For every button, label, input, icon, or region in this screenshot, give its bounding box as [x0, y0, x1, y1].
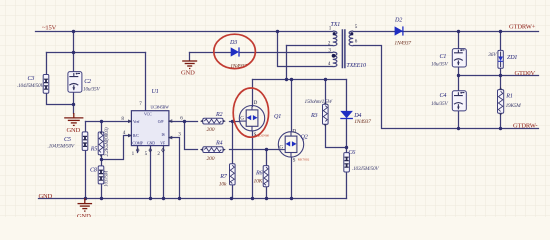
svg-text:C2: C2	[84, 79, 91, 85]
svg-text:10u/35V: 10u/35V	[83, 87, 100, 93]
svg-text:IS: IS	[162, 133, 165, 137]
svg-text:C1: C1	[440, 54, 447, 60]
node R2/R7 junction	[231, 120, 234, 123]
svg-text:D2: D2	[394, 17, 402, 23]
wire D4 to C6	[346, 119, 348, 153]
svg-text:TXEE10: TXEE10	[346, 63, 366, 69]
node pin6/R4 junction	[183, 120, 186, 123]
wire C3 top lead	[46, 53, 48, 75]
svg-text:5: 5	[355, 24, 358, 30]
op-amp U1 UC3845	[121, 89, 183, 157]
diode D3	[229, 40, 247, 69]
svg-text:200: 200	[207, 127, 215, 133]
wire Q1 source	[252, 132, 254, 199]
svg-text:2.2K5M(0803): 2.2K5M(0803)	[103, 127, 110, 156]
svg-text:D: D	[254, 100, 258, 106]
transistor Q2 MOSFET	[278, 132, 303, 158]
svg-text:.103J5M/50V: .103J5M/50V	[352, 166, 379, 172]
svg-text:103J5M: 103J5M	[104, 170, 110, 187]
red circle around D3	[214, 34, 256, 68]
svg-text:R6: R6	[255, 170, 264, 176]
svg-text:GND: GND	[67, 127, 81, 134]
capacitor C2 electrolytic	[68, 72, 101, 93]
svg-text:R/C: R/C	[133, 134, 139, 138]
svg-text:O/P: O/P	[158, 120, 164, 124]
svg-text:10u/35V: 10u/35V	[431, 101, 448, 107]
svg-text:~15V: ~15V	[42, 25, 57, 32]
wire C1 bottom	[458, 68, 460, 76]
svg-text:150ohm/1.5W: 150ohm/1.5W	[305, 99, 333, 105]
wire C2/C3 feed vertical	[73, 32, 75, 53]
wire C8 bottom	[101, 184, 103, 199]
svg-text:U1: U1	[152, 89, 159, 95]
svg-text:5: 5	[145, 151, 148, 157]
wire pin8 Vref	[86, 121, 132, 123]
ground under C2/C3	[64, 113, 83, 125]
svg-text:GND: GND	[147, 141, 155, 145]
node GTDRW- junctions	[457, 127, 460, 130]
wire TX1 pin6 down to GTDRW- rail	[354, 46, 539, 129]
svg-text:Vref: Vref	[133, 120, 140, 124]
wire Vref to R5	[101, 122, 103, 133]
ground under bottom rail	[78, 198, 93, 211]
node R5/C8/pin4 junction	[100, 158, 103, 161]
wire C4 bottom	[458, 111, 460, 129]
svg-text:S: S	[293, 157, 296, 163]
svg-text:VF: VF	[160, 141, 165, 145]
wire D3 gnd stub	[189, 53, 191, 61]
svg-text:8: 8	[121, 116, 124, 122]
svg-text:RK7002: RK7002	[298, 157, 310, 161]
wire U1 pin5 GND	[150, 146, 152, 199]
wire R6 drop	[266, 150, 268, 166]
wire R1 bottom	[500, 114, 502, 129]
node R4/R6 junction	[265, 148, 268, 151]
capacitor C4 electrolytic	[431, 91, 466, 111]
wire C3-C2-VCC horizontal	[47, 52, 146, 54]
svg-text:G: G	[240, 116, 244, 122]
svg-text:C3: C3	[28, 76, 35, 82]
wire R2 to Q1 gate	[230, 121, 240, 123]
svg-text:3: 3	[328, 48, 331, 54]
svg-text:Q1: Q1	[274, 114, 281, 120]
resistor R3	[305, 99, 333, 127]
svg-text:1N4937: 1N4937	[354, 119, 371, 125]
svg-text:19K5M: 19K5M	[506, 103, 522, 109]
node C3/C2 top junction	[72, 51, 75, 54]
wire R1 top	[500, 76, 502, 90]
svg-text:GND: GND	[39, 193, 53, 200]
core	[342, 29, 345, 68]
svg-text:G: G	[279, 145, 283, 151]
wire C1 top	[458, 32, 460, 49]
node GTDRW+ junctions	[457, 30, 460, 33]
ground at D3 anode	[182, 61, 197, 69]
svg-text:.104J5M/50V: .104J5M/50V	[17, 83, 44, 89]
svg-text:R2: R2	[215, 112, 223, 118]
node gnd rail junctions	[84, 197, 87, 200]
svg-text:C5: C5	[64, 137, 71, 143]
wire ZD1 bottom	[500, 69, 502, 76]
wire C4 top	[458, 76, 460, 91]
svg-text:C4: C4	[440, 93, 447, 99]
capacitor C3	[17, 75, 49, 94]
node Vref/R5 junction	[100, 120, 103, 123]
wire R7 bottom	[232, 185, 234, 199]
wire Q2 drain	[291, 80, 293, 132]
wire rail to TX1 pin4	[278, 32, 333, 67]
resistor R5	[90, 127, 110, 157]
wire C5 bottom to gnd rail	[85, 151, 87, 199]
resistor R4	[200, 141, 226, 162]
wire pin2 horizontal	[287, 45, 333, 47]
wire GTD0V rail	[459, 75, 539, 77]
wire R3 bottom to C6 node	[326, 125, 347, 148]
svg-text:4: 4	[123, 130, 126, 136]
node GTD0V junctions	[457, 74, 460, 77]
svg-text:2: 2	[157, 151, 160, 157]
wire Q2 source	[291, 158, 293, 199]
wire C2 top lead	[73, 53, 75, 72]
wire Vref to C5	[85, 122, 87, 132]
winding 5-6	[349, 31, 353, 46]
wire R3 top	[325, 80, 327, 105]
svg-text:TX1: TX1	[331, 22, 341, 28]
resistor R2	[200, 112, 226, 133]
capacitor C5	[48, 132, 88, 151]
capacitor C8	[90, 166, 110, 187]
wire R6 bottom	[266, 187, 268, 199]
polarity dots TX1	[333, 32, 336, 35]
svg-text:GND: GND	[181, 70, 195, 77]
svg-text:C6: C6	[348, 150, 356, 156]
winding 1-2	[333, 31, 337, 46]
wire U1 pin3 IS	[169, 138, 180, 199]
svg-text:10k: 10k	[219, 181, 227, 187]
svg-text:.104J5M/50V: .104J5M/50V	[48, 143, 75, 149]
wire U1 pin1 stub	[137, 146, 139, 153]
diode D4	[340, 111, 371, 125]
svg-text:C8: C8	[90, 168, 97, 174]
svg-text:36V: 36V	[487, 52, 497, 58]
svg-text:R4: R4	[215, 141, 223, 147]
wire TX1 pin2 to Q2 drain node	[286, 46, 288, 80]
capacitor C6	[344, 150, 380, 172]
wire D4 branch	[346, 80, 348, 111]
svg-text:6: 6	[355, 39, 358, 45]
svg-text:R1: R1	[505, 93, 513, 99]
wire ZD1 top	[500, 32, 502, 51]
wire C6 bottom	[346, 173, 348, 199]
svg-text:1: 1	[132, 151, 135, 157]
wire TX1 pin5 GTDRW+ rail	[354, 31, 539, 33]
pin arrows	[128, 120, 131, 123]
svg-text:VCC: VCC	[144, 112, 152, 116]
node ~15V/C2 junction	[72, 30, 75, 33]
svg-text:R5: R5	[90, 147, 98, 153]
resistor R6	[254, 166, 269, 187]
wire pin4 R/C L-shape	[102, 136, 132, 160]
node R3/D4/C6 junction	[345, 146, 348, 149]
svg-text:ZD1: ZD1	[507, 55, 517, 61]
wire Q1 drain	[252, 80, 254, 107]
transistor Q1 MOSFET	[239, 106, 264, 132]
svg-text:4: 4	[328, 61, 331, 67]
svg-text:D3: D3	[229, 40, 237, 46]
wire R4 to Q2 gate	[230, 149, 279, 151]
wire GND bottom rail	[39, 198, 347, 200]
winding 3-4	[333, 52, 337, 67]
node drain bus junctions	[285, 78, 288, 81]
capacitor C1 electrolytic	[431, 49, 466, 68]
svg-text:GTDRW-: GTDRW-	[513, 123, 537, 130]
resistor R7	[219, 164, 235, 188]
svg-text:GTD0V: GTD0V	[515, 70, 536, 77]
zener ZD1	[487, 50, 517, 68]
svg-text:COMP: COMP	[132, 141, 142, 145]
node rail/pin4 junction	[276, 30, 279, 33]
svg-text:GND: GND	[77, 213, 91, 217]
wire ~15V rail	[36, 31, 333, 33]
wire pin6 branch to R4	[185, 122, 198, 150]
svg-text:Q2: Q2	[301, 134, 308, 140]
wire R7 drop	[232, 122, 234, 164]
wire R5-C8 node	[101, 155, 103, 166]
wire drain bus	[253, 79, 347, 81]
resistor R1	[498, 87, 522, 116]
svg-text:2: 2	[328, 41, 331, 47]
wire VCC drop to U1 pin7	[145, 53, 147, 111]
transformer TX1	[333, 29, 353, 68]
svg-text:UC3845BW: UC3845BW	[151, 106, 170, 110]
wire D3 cathode to TX1 pin3	[240, 52, 333, 54]
red circle around Q1	[233, 88, 268, 137]
svg-text:GTDRW+: GTDRW+	[509, 24, 536, 31]
wire U1 pin2 VF	[163, 146, 165, 199]
wire D3 anode line	[190, 52, 231, 54]
svg-text:10K: 10K	[254, 178, 263, 184]
svg-text:R7: R7	[219, 174, 228, 180]
svg-text:1N4937: 1N4937	[394, 41, 411, 47]
svg-text:10u/35V: 10u/35V	[431, 62, 448, 68]
svg-text:R3: R3	[310, 113, 318, 119]
svg-text:D: D	[292, 128, 296, 134]
wire pin6 output to R2	[169, 121, 198, 123]
svg-text:200: 200	[207, 156, 215, 162]
diode D2	[394, 17, 411, 46]
wire C3 bottom to gnd node	[47, 94, 74, 105]
wire C2 bottom lead	[73, 93, 75, 114]
node C3/C2 bottom junction	[72, 103, 75, 106]
